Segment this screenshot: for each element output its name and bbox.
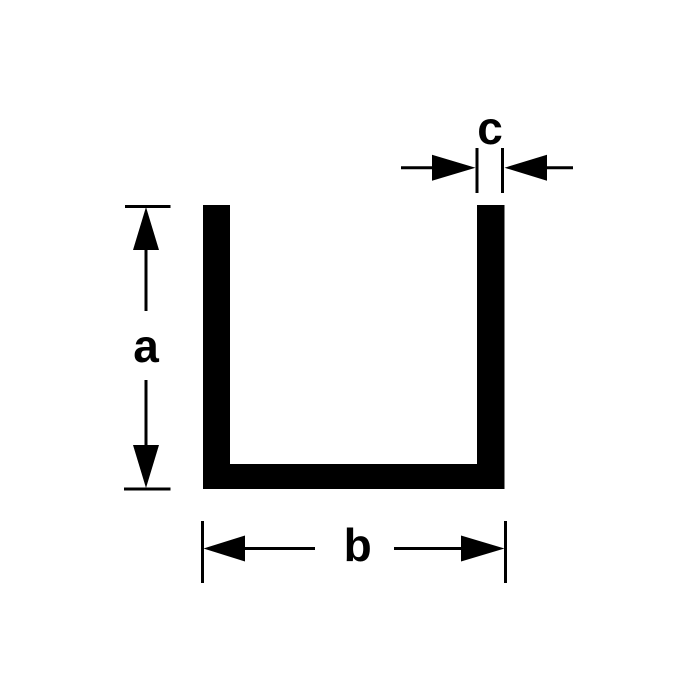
dimension b left arrowhead: [204, 536, 246, 562]
dimension c left extension line: [476, 148, 479, 193]
svg-text:b: b: [344, 519, 372, 571]
dimension c left line segment: [401, 166, 432, 169]
dimension a lower line segment: [145, 380, 148, 445]
dimension b left line segment: [245, 547, 315, 550]
dimension a down arrowhead: [133, 445, 159, 488]
dimension a upper line segment: [145, 250, 148, 311]
dimension c right line segment: [547, 166, 573, 169]
dimension b left extension line: [201, 521, 204, 583]
dimension a top tick: [125, 205, 171, 208]
dimension c right extension line: [501, 148, 504, 193]
dimension a up arrowhead: [133, 207, 159, 250]
svg-text:c: c: [477, 102, 503, 154]
dimension b right arrowhead: [461, 536, 505, 562]
dimension c left arrowhead: [432, 155, 476, 181]
dimension b right extension line: [504, 521, 507, 583]
svg-text:a: a: [133, 320, 159, 372]
U-channel profile: [203, 205, 505, 489]
dimension c right arrowhead: [505, 155, 548, 181]
dimension a bottom tick: [124, 488, 171, 491]
dimension b right line segment: [394, 547, 461, 550]
